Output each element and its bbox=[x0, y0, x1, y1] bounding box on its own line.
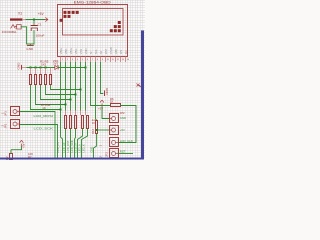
svg-text:C86: C86 bbox=[114, 49, 118, 54]
supply symbol +5V arrow (bottom left) bbox=[20, 140, 24, 146]
wire +5V into JP2 pin 1 bbox=[102, 106, 110, 118]
connector JP1 pin 1 symbol bbox=[11, 107, 21, 116]
svg-text:3V3: 3V3 bbox=[53, 62, 59, 66]
svg-text:VSS: VSS bbox=[79, 49, 83, 55]
wire X1 sleeve to ground bbox=[21, 27, 34, 46]
svg-text:LCD_A0: LCD_A0 bbox=[62, 142, 66, 152]
wire net LCD_MOSI from JP1.1 bbox=[20, 112, 55, 158]
wire column pin5 net bbox=[80, 62, 82, 111]
resistor R7 bbox=[65, 111, 67, 158]
wire C1 bottom lead bbox=[33, 31, 35, 44]
svg-text:VB0-: VB0- bbox=[64, 48, 68, 54]
junction R4 bbox=[45, 67, 47, 69]
resistor R4 bbox=[45, 68, 47, 85]
pin stubs with pin numbers bbox=[61, 57, 126, 63]
svg-text:1K5: 1K5 bbox=[41, 62, 47, 66]
staircase wire from R3 to column pin3 bbox=[41, 85, 71, 100]
junction staircase-pin5 bbox=[80, 89, 82, 91]
frame border bottom (blue) bbox=[0, 158, 144, 160]
svg-text:GND: GND bbox=[105, 88, 109, 96]
svg-text:RST: RST bbox=[104, 48, 108, 54]
junction staircase-pin4 bbox=[75, 94, 77, 96]
svg-text:100uF: 100uF bbox=[36, 33, 45, 37]
svg-text:VB0+: VB0+ bbox=[59, 47, 63, 54]
wire net LCD_SCK from JP1.2 bbox=[20, 125, 58, 158]
svg-text:LED_K: LED_K bbox=[81, 144, 85, 152]
svg-text:+5V: +5V bbox=[38, 12, 45, 16]
svg-text:RST: RST bbox=[120, 150, 126, 154]
connector JP2 pin 1 symbol bbox=[110, 114, 119, 123]
resistor R12 bbox=[96, 121, 98, 134]
svg-text:LCD_RST: LCD_RST bbox=[66, 140, 70, 152]
svg-text:SI: SI bbox=[89, 51, 93, 54]
svg-text:X1: X1 bbox=[18, 12, 22, 16]
svg-text:NC: NC bbox=[124, 50, 128, 54]
svg-text:LCD_CS: LCD_CS bbox=[56, 142, 60, 153]
junction R1 bbox=[30, 67, 32, 69]
svg-text:1K: 1K bbox=[42, 106, 46, 110]
svg-text:+5V: +5V bbox=[22, 143, 26, 148]
resistor R2 bbox=[35, 68, 37, 85]
svg-text:LED_A: LED_A bbox=[77, 144, 81, 152]
resistor R11 bbox=[82, 111, 89, 158]
svg-text:+5V: +5V bbox=[120, 128, 125, 132]
junction staircase-pin2 bbox=[65, 104, 67, 106]
pin number labels bbox=[62, 59, 130, 61]
wire into JP2 pin 2 bbox=[97, 129, 110, 131]
resistor R6 (horizontal) bbox=[111, 104, 121, 107]
svg-text:LCD_CLK: LCD_CLK bbox=[120, 139, 133, 143]
wire rail continues to pin 6 column bbox=[58, 67, 85, 69]
junction staircase-pin1 bbox=[60, 109, 62, 111]
resistor R2 pullup bbox=[10, 150, 13, 160]
svg-text:CS1B: CS1B bbox=[109, 47, 113, 54]
wire R2 to +5V arrow bbox=[11, 146, 22, 149]
connector X1 switch contact box bbox=[17, 25, 22, 29]
wire column pin7 net to R6 bbox=[91, 62, 111, 106]
junction at column 86 bbox=[85, 67, 87, 69]
resistor R9 bbox=[75, 111, 77, 158]
display module U1 outer box bbox=[58, 5, 128, 57]
pixel pattern top-left cluster bbox=[60, 11, 79, 22]
connector JP1 pin 2 symbol bbox=[11, 120, 21, 129]
wire column pin1 net bbox=[61, 62, 63, 158]
svg-text:LCD_MOSI: LCD_MOSI bbox=[34, 114, 54, 118]
ground symbol GND bbox=[27, 45, 33, 47]
wire column pin3 net bbox=[70, 62, 72, 111]
svg-text:GND: GND bbox=[120, 116, 126, 120]
wire into JP3 pin 2 bbox=[119, 153, 134, 155]
svg-text:DC008A: DC008A bbox=[2, 30, 18, 34]
connector JP3 pin 1 symbol bbox=[110, 138, 119, 147]
resistor R10 bbox=[78, 111, 84, 158]
svg-text:VDD: VDD bbox=[84, 48, 88, 54]
svg-text:SCL: SCL bbox=[94, 48, 98, 54]
pin stub X1 center pin bbox=[22, 19, 26, 21]
svg-text:LCD_SCK: LCD_SCK bbox=[70, 140, 74, 152]
svg-text:VB1-: VB1- bbox=[74, 48, 78, 54]
svg-text:GND: GND bbox=[16, 62, 20, 70]
svg-text:P/S: P/S bbox=[119, 50, 123, 55]
wire +5V net from X1 to supply arrow bbox=[26, 19, 45, 21]
frame border right (blue) bbox=[141, 31, 144, 159]
pixel pattern bottom-right cluster bbox=[110, 21, 121, 32]
svg-text:JP3: JP3 bbox=[105, 152, 109, 157]
frame tick marks (red) near right border bbox=[137, 84, 142, 88]
staircase wire from R1 to column pin1 bbox=[31, 85, 61, 110]
wire column pin4 net bbox=[75, 62, 77, 111]
connector X1 sleeve contact bbox=[11, 25, 17, 29]
svg-text:LCD_SCK: LCD_SCK bbox=[34, 126, 54, 130]
wire R12 bottom to bottom edge bbox=[94, 134, 97, 158]
capacitor C1 polarized plates bbox=[31, 25, 37, 27]
wire column pin2 net bbox=[65, 62, 67, 111]
svg-text:C1: C1 bbox=[38, 23, 42, 27]
svg-text:GND: GND bbox=[26, 47, 34, 51]
resistor R8 bbox=[70, 111, 72, 158]
wire R6 output to JP3 pin LCD_CLK bbox=[119, 106, 137, 143]
junction at C1 top bbox=[33, 19, 35, 21]
ground symbol GND (rotated) at pin9 bbox=[104, 91, 106, 97]
staircase wire from R4 to column pin4 bbox=[46, 85, 76, 95]
supply symbol +5V arrow bbox=[45, 18, 48, 22]
resistor R5 bbox=[50, 68, 52, 85]
svg-text:R12: R12 bbox=[91, 128, 95, 134]
wire column pin6 net bbox=[85, 62, 87, 111]
connector JP3 pin 2 symbol bbox=[110, 149, 119, 158]
svg-text:A0: A0 bbox=[99, 50, 103, 54]
resistor R1 bbox=[30, 68, 32, 85]
junction staircase-pin3 bbox=[70, 99, 72, 101]
junction R3 bbox=[40, 67, 42, 69]
junction R2 bbox=[35, 67, 37, 69]
wire column pin9 net to ground bbox=[101, 62, 104, 94]
staircase wire from R5 to column pin5 bbox=[51, 85, 81, 90]
svg-text:VB1+: VB1+ bbox=[69, 47, 73, 54]
junction R12-JP2.2 bbox=[96, 129, 98, 131]
zener diode ZD1 bbox=[55, 66, 58, 70]
connector X1 (DC barrel jack) center-pin bar bbox=[10, 18, 22, 20]
supply symbol +5V arrow (right block) bbox=[100, 100, 104, 106]
staircase wire from R2 to column pin2 bbox=[36, 85, 66, 105]
svg-text:GND: GND bbox=[89, 147, 93, 153]
wire C1 top lead bbox=[33, 20, 35, 26]
connector JP2 pin 2 symbol bbox=[110, 126, 119, 135]
svg-text:JP2: JP2 bbox=[120, 111, 125, 115]
wire GND rail bbox=[27, 67, 55, 69]
svg-text:1K: 1K bbox=[92, 121, 95, 125]
svg-text:LCD_SI: LCD_SI bbox=[74, 143, 78, 152]
pin name labels (rotated, grey) bbox=[59, 47, 128, 54]
wire column pin8 net to R12 bbox=[96, 62, 97, 120]
resistor R3 bbox=[40, 68, 42, 85]
display module U1 glass outline bbox=[63, 9, 124, 36]
